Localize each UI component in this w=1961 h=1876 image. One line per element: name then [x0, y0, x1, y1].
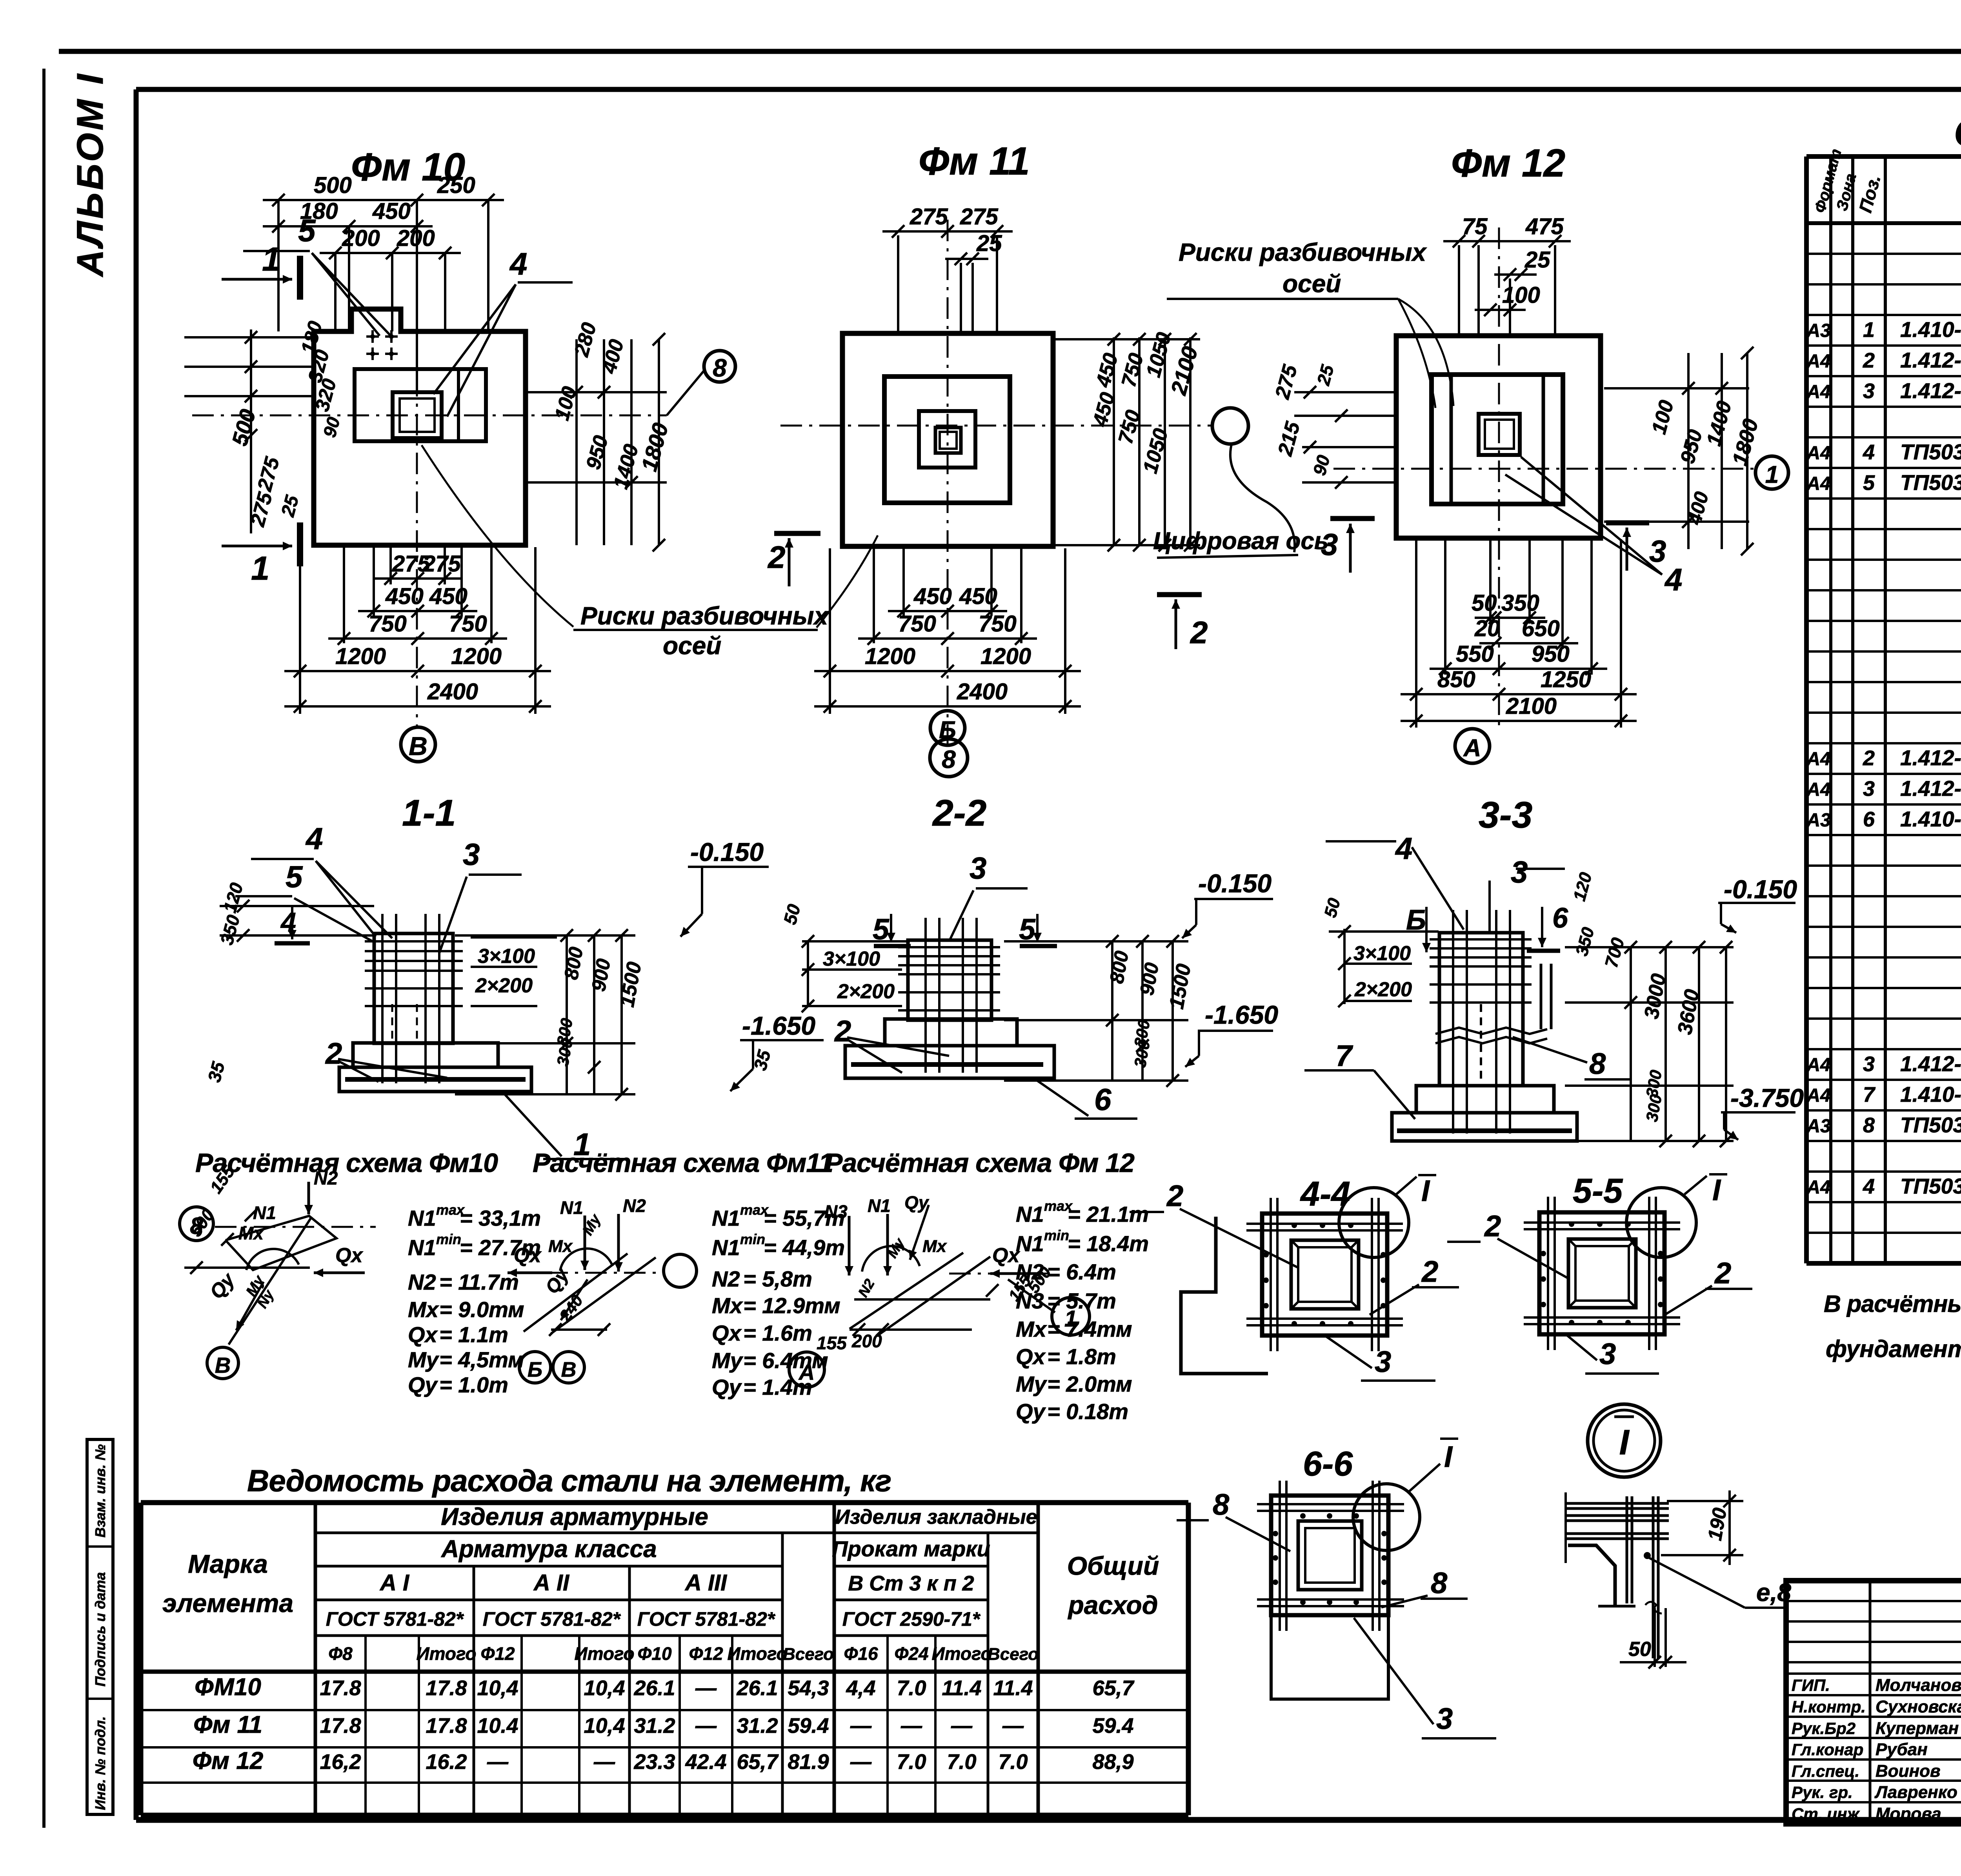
- svg-text:3: 3: [1511, 855, 1528, 889]
- svg-text:275: 275: [960, 204, 999, 229]
- svg-text:Спецификация: Спецификация: [1954, 111, 1961, 154]
- svg-text:3-3: 3-3: [1479, 794, 1532, 836]
- svg-text:2×200: 2×200: [1354, 978, 1412, 1001]
- svg-text:Qy: Qy: [712, 1375, 742, 1399]
- svg-text:1.412-1/77, Вып.3: 1.412-1/77, Вып.3: [1900, 746, 1961, 770]
- svg-text:= 6.4т: = 6.4т: [1047, 1259, 1116, 1284]
- svg-text:31.2: 31.2: [737, 1714, 778, 1738]
- svg-text:75: 75: [1462, 214, 1488, 239]
- svg-text:Гл.спец.: Гл.спец.: [1792, 1762, 1859, 1780]
- svg-text:1200: 1200: [980, 644, 1031, 669]
- svg-text:осей: осей: [663, 631, 721, 660]
- svg-text:4: 4: [305, 821, 323, 856]
- svg-text:А4: А4: [1806, 779, 1830, 800]
- svg-text:N1: N1: [408, 1206, 436, 1230]
- svg-text:е,8: е,8: [1756, 1578, 1791, 1607]
- svg-text:17.8: 17.8: [320, 1714, 361, 1738]
- svg-text:= 7.4тм: = 7.4тм: [1047, 1317, 1132, 1341]
- svg-text:Mx: Mx: [238, 1223, 264, 1243]
- svg-text:= 5.7т: = 5.7т: [1047, 1288, 1116, 1313]
- svg-text:Лавренко: Лавренко: [1874, 1783, 1957, 1802]
- svg-text:Изделия закладные: Изделия закладные: [835, 1506, 1037, 1528]
- svg-text:17.8: 17.8: [426, 1676, 467, 1700]
- svg-text:Итого: Итого: [728, 1643, 788, 1664]
- svg-text:А3: А3: [1806, 810, 1831, 831]
- svg-text:—: —: [487, 1750, 509, 1774]
- svg-text:2100: 2100: [1506, 693, 1557, 719]
- svg-text:4: 4: [1395, 831, 1412, 866]
- svg-text:-0.150: -0.150: [1198, 869, 1272, 898]
- svg-text:N3: N3: [824, 1201, 848, 1222]
- svg-text:Mх: Mх: [548, 1237, 573, 1256]
- svg-text:2: 2: [325, 1037, 342, 1070]
- svg-text:2: 2: [1714, 1257, 1731, 1290]
- svg-text:ГОСТ 5781-82*: ГОСТ 5781-82*: [483, 1608, 621, 1630]
- svg-text:Qу: Qу: [904, 1192, 930, 1213]
- svg-text:1-1: 1-1: [402, 792, 456, 834]
- svg-text:3: 3: [1375, 1345, 1391, 1379]
- svg-text:I: I: [1421, 1174, 1430, 1208]
- svg-text:Ст. инж: Ст. инж: [1792, 1805, 1860, 1823]
- svg-text:1.410-3 , Вып.1: 1.410-3 , Вып.1: [1900, 1082, 1961, 1106]
- svg-text:10.4: 10.4: [477, 1714, 518, 1738]
- svg-text:4: 4: [1863, 440, 1875, 464]
- svg-text:Инв. № подл.: Инв. № подл.: [92, 1716, 108, 1810]
- svg-text:= 2.0тм: = 2.0тм: [1047, 1372, 1132, 1396]
- svg-text:А: А: [1463, 735, 1481, 762]
- svg-text:7.0: 7.0: [897, 1676, 926, 1700]
- svg-text:16,2: 16,2: [320, 1750, 361, 1774]
- svg-text:3×100: 3×100: [1353, 942, 1411, 965]
- svg-text:Риски разбивочных: Риски разбивочных: [1179, 238, 1427, 266]
- svg-text:N1: N1: [1016, 1231, 1044, 1256]
- svg-text:N1: N1: [712, 1206, 740, 1230]
- svg-text:—: —: [850, 1714, 872, 1738]
- svg-text:Ф24: Ф24: [894, 1643, 928, 1664]
- svg-text:Mx: Mx: [408, 1297, 440, 1322]
- svg-text:Куперман: Куперман: [1876, 1719, 1959, 1738]
- svg-text:—: —: [951, 1714, 973, 1738]
- svg-text:2400: 2400: [427, 679, 478, 704]
- svg-text:Расчётная схема Фм10: Расчётная схема Фм10: [195, 1148, 498, 1178]
- svg-text:59.4: 59.4: [788, 1714, 829, 1738]
- svg-text:2: 2: [767, 540, 786, 575]
- svg-text:= 4,5тм: = 4,5тм: [439, 1347, 524, 1372]
- svg-text:155: 155: [817, 1333, 847, 1353]
- svg-text:42.4: 42.4: [685, 1750, 726, 1774]
- svg-text:= 1.6т: = 1.6т: [743, 1321, 812, 1345]
- svg-text:min: min: [1044, 1227, 1069, 1243]
- svg-text:Арматура класса: Арматура класса: [440, 1536, 657, 1563]
- svg-text:осей: осей: [1282, 269, 1341, 298]
- svg-text:5: 5: [286, 859, 303, 894]
- svg-text:8: 8: [1431, 1567, 1448, 1600]
- svg-text:1200: 1200: [335, 644, 386, 669]
- svg-text:= 5,8т: = 5,8т: [743, 1266, 812, 1291]
- svg-text:Цифровая ось: Цифровая ось: [1153, 528, 1329, 555]
- svg-text:10,4: 10,4: [584, 1714, 625, 1738]
- svg-text:1.412-1/77, Вып.3: 1.412-1/77, Вып.3: [1900, 776, 1961, 801]
- svg-text:= 1.0т: = 1.0т: [439, 1372, 508, 1397]
- svg-text:Ф12: Ф12: [689, 1643, 723, 1664]
- svg-text:550: 550: [1456, 641, 1494, 667]
- svg-text:N2: N2: [623, 1195, 646, 1216]
- svg-text:5: 5: [298, 213, 316, 248]
- svg-text:8: 8: [713, 354, 727, 382]
- svg-text:элемента: элемента: [162, 1589, 293, 1618]
- svg-text:1: 1: [262, 241, 280, 278]
- svg-text:6: 6: [1863, 808, 1875, 831]
- svg-text:= 1.1т: = 1.1т: [439, 1322, 508, 1347]
- svg-text:Mx: Mx: [1016, 1317, 1048, 1341]
- svg-text:3×100: 3×100: [823, 948, 880, 970]
- svg-text:8: 8: [1589, 1047, 1606, 1081]
- svg-text:Qx: Qx: [514, 1244, 542, 1267]
- svg-text:Рубан: Рубан: [1876, 1740, 1928, 1759]
- svg-text:5-5: 5-5: [1573, 1171, 1623, 1210]
- svg-text:Итого: Итого: [932, 1643, 992, 1664]
- svg-text:А3: А3: [1806, 320, 1831, 341]
- svg-text:5: 5: [1863, 471, 1875, 495]
- svg-text:59.4: 59.4: [1092, 1714, 1133, 1738]
- svg-text:В расчётных схемах даны: В расчётных схемах даны нормативные нагр…: [1824, 1290, 1961, 1317]
- svg-text:My: My: [1016, 1372, 1048, 1396]
- svg-text:17.8: 17.8: [426, 1714, 467, 1738]
- svg-text:= 1.8т: = 1.8т: [1047, 1344, 1116, 1369]
- svg-text:4: 4: [1863, 1175, 1875, 1198]
- svg-text:65,7: 65,7: [1092, 1676, 1135, 1700]
- svg-text:2×200: 2×200: [475, 974, 533, 997]
- svg-text:N2: N2: [314, 1168, 338, 1189]
- svg-text:—: —: [1002, 1714, 1024, 1738]
- svg-text:фундамента на отм. - 0.150.: фундамента на отм. - 0.150.: [1826, 1336, 1961, 1362]
- svg-text:В: В: [409, 731, 427, 761]
- svg-text:475: 475: [1525, 214, 1564, 239]
- svg-text:Расчётная схема Фм 12: Расчётная схема Фм 12: [825, 1148, 1135, 1178]
- svg-text:= 18.4т: = 18.4т: [1068, 1231, 1149, 1256]
- svg-text:650: 650: [1522, 616, 1560, 641]
- svg-text:Гл.конар: Гл.конар: [1792, 1740, 1863, 1759]
- svg-text:350: 350: [1501, 590, 1539, 616]
- svg-text:—: —: [900, 1714, 922, 1738]
- svg-text:-0.150: -0.150: [1724, 875, 1797, 904]
- svg-text:= 44,9т: = 44,9т: [764, 1235, 845, 1260]
- svg-text:Qx: Qx: [712, 1321, 742, 1345]
- svg-text:А III: А III: [684, 1570, 728, 1596]
- svg-text:3: 3: [1863, 1052, 1875, 1076]
- svg-text:Qy: Qy: [1016, 1399, 1046, 1424]
- svg-text:8: 8: [1863, 1114, 1875, 1137]
- svg-text:54,3: 54,3: [788, 1676, 829, 1700]
- svg-text:АЛЬБОМ I: АЛЬБОМ I: [69, 72, 111, 277]
- svg-text:расход: расход: [1067, 1590, 1158, 1619]
- svg-text:750: 750: [979, 611, 1017, 637]
- svg-text:Итого: Итого: [417, 1643, 477, 1664]
- svg-text:450: 450: [372, 198, 411, 224]
- svg-text:А4: А4: [1806, 443, 1830, 464]
- svg-text:3×100: 3×100: [478, 945, 535, 968]
- svg-text:1: 1: [1863, 318, 1875, 342]
- svg-text:—: —: [695, 1714, 717, 1738]
- svg-text:= 9.0тм: = 9.0тм: [439, 1297, 524, 1322]
- svg-text:26.1: 26.1: [736, 1676, 778, 1700]
- svg-text:2: 2: [1863, 746, 1875, 770]
- svg-text:8: 8: [942, 745, 956, 773]
- svg-text:1.410-3, Вып.1: 1.410-3, Вып.1: [1900, 807, 1961, 831]
- svg-text:4: 4: [1664, 562, 1683, 597]
- svg-text:Прокат марки: Прокат марки: [832, 1536, 990, 1561]
- svg-text:Qx: Qx: [408, 1322, 438, 1347]
- svg-text:N2: N2: [1016, 1259, 1044, 1284]
- svg-text:N1: N1: [253, 1203, 276, 1223]
- svg-text:50: 50: [1472, 590, 1497, 616]
- svg-text:3: 3: [1436, 1702, 1453, 1736]
- svg-text:В Ст 3 к п 2: В Ст 3 к п 2: [848, 1572, 974, 1595]
- svg-text:Н.контр.: Н.контр.: [1792, 1698, 1866, 1716]
- svg-text:I: I: [1712, 1174, 1721, 1207]
- svg-text:А4: А4: [1806, 1177, 1830, 1198]
- svg-text:275: 275: [910, 204, 948, 229]
- svg-text:7: 7: [1863, 1083, 1876, 1106]
- svg-text:Рук. гр.: Рук. гр.: [1792, 1783, 1853, 1801]
- svg-text:Сухновская: Сухновская: [1876, 1697, 1961, 1716]
- svg-text:6: 6: [1552, 903, 1568, 934]
- svg-text:50: 50: [1628, 1638, 1651, 1661]
- svg-text:88,9: 88,9: [1092, 1750, 1133, 1774]
- svg-text:ТП503-3-20.87 альбом IV: ТП503-3-20.87 альбом IV: [1900, 440, 1961, 464]
- svg-text:А4: А4: [1806, 473, 1830, 494]
- svg-text:N1: N1: [408, 1235, 436, 1260]
- svg-text:200: 200: [397, 226, 435, 251]
- svg-text:Ведомость расхода стали на эле: Ведомость расхода стали на элемент, кг: [247, 1463, 891, 1498]
- svg-text:А4: А4: [1806, 1055, 1830, 1075]
- svg-text:В: В: [561, 1358, 577, 1381]
- svg-text:—: —: [695, 1676, 717, 1700]
- svg-text:А II: А II: [533, 1570, 570, 1596]
- svg-text:—: —: [593, 1750, 615, 1774]
- svg-text:25: 25: [976, 231, 1002, 256]
- svg-text:= 0.18т: = 0.18т: [1047, 1399, 1128, 1424]
- svg-text:950: 950: [1532, 641, 1570, 667]
- svg-text:20: 20: [1474, 616, 1500, 641]
- svg-text:1: 1: [251, 550, 269, 587]
- svg-text:2×200: 2×200: [837, 980, 895, 1003]
- svg-text:ФМ10: ФМ10: [195, 1674, 261, 1701]
- svg-text:-3.750: -3.750: [1730, 1083, 1804, 1112]
- svg-text:1250: 1250: [1541, 667, 1591, 692]
- svg-text:1.412-1/77, Вып.3: 1.412-1/77, Вып.3: [1900, 348, 1961, 372]
- svg-text:ГОСТ 2590-71*: ГОСТ 2590-71*: [842, 1608, 981, 1630]
- svg-text:I: I: [1619, 1423, 1630, 1462]
- svg-text:23.3: 23.3: [633, 1750, 675, 1774]
- svg-text:7.0: 7.0: [947, 1750, 976, 1774]
- svg-text:1200: 1200: [865, 644, 915, 669]
- svg-text:Морова: Морова: [1876, 1804, 1941, 1823]
- svg-text:Рук.Бр2: Рук.Бр2: [1792, 1719, 1855, 1738]
- svg-text:N1: N1: [712, 1235, 740, 1260]
- svg-text:ТП503-3-20.87 альбом IV: ТП503-3-20.87 альбом IV: [1900, 1174, 1961, 1198]
- svg-text:-1.650: -1.650: [742, 1011, 815, 1040]
- svg-text:11.4: 11.4: [993, 1676, 1033, 1700]
- svg-text:1.412-1/77, Вып.3: 1.412-1/77, Вып.3: [1900, 1052, 1961, 1076]
- svg-text:ТП503-3-20.87 альбом IV: ТП503-3-20.87 альбом IV: [1900, 470, 1961, 495]
- svg-text:Qx: Qx: [1016, 1344, 1046, 1369]
- svg-text:Всего: Всего: [988, 1645, 1039, 1664]
- svg-text:3: 3: [463, 837, 480, 872]
- svg-text:= 12.9тм: = 12.9тм: [743, 1293, 840, 1318]
- svg-text:А4: А4: [1806, 351, 1830, 372]
- svg-text:Ф16: Ф16: [844, 1643, 878, 1664]
- svg-text:3: 3: [1863, 379, 1875, 403]
- svg-text:1.412-1/77, Вып3: 1.412-1/77, Вып3: [1900, 378, 1961, 403]
- svg-text:8: 8: [1213, 1488, 1230, 1521]
- svg-text:750: 750: [449, 611, 487, 637]
- svg-text:2: 2: [834, 1015, 851, 1048]
- svg-text:Б: Б: [528, 1358, 542, 1381]
- svg-text:3: 3: [1321, 527, 1338, 562]
- svg-text:4,4: 4,4: [846, 1676, 875, 1700]
- svg-text:2400: 2400: [957, 679, 1008, 704]
- svg-text:My: My: [712, 1348, 744, 1373]
- svg-text:min: min: [436, 1231, 461, 1247]
- svg-text:N2: N2: [712, 1266, 740, 1291]
- svg-text:1200: 1200: [451, 644, 502, 669]
- svg-text:Расчётная схема Фм11: Расчётная схема Фм11: [533, 1148, 833, 1178]
- svg-text:А: А: [798, 1360, 815, 1385]
- svg-text:А4: А4: [1806, 1085, 1830, 1106]
- svg-text:Молчанов: Молчанов: [1876, 1676, 1961, 1695]
- svg-text:= 33,1т: = 33,1т: [460, 1206, 541, 1230]
- svg-text:= 21.1т: = 21.1т: [1068, 1202, 1149, 1226]
- svg-text:А3: А3: [1806, 1116, 1831, 1137]
- svg-text:Фм 12: Фм 12: [1451, 141, 1565, 185]
- svg-text:Общий: Общий: [1067, 1551, 1159, 1580]
- svg-text:4: 4: [509, 246, 528, 281]
- svg-text:2-2: 2-2: [932, 792, 986, 834]
- svg-text:min: min: [740, 1231, 765, 1247]
- svg-text:7.0: 7.0: [897, 1750, 926, 1774]
- svg-text:Взам. инв. №: Взам. инв. №: [92, 1444, 108, 1538]
- svg-text:А4: А4: [1806, 749, 1830, 770]
- svg-text:В: В: [215, 1353, 231, 1377]
- svg-text:My: My: [408, 1347, 440, 1372]
- svg-text:2: 2: [1421, 1255, 1438, 1288]
- svg-text:Ф12: Ф12: [480, 1643, 515, 1664]
- svg-text:ГОСТ 5781-82*: ГОСТ 5781-82*: [637, 1608, 776, 1630]
- svg-text:2: 2: [1190, 615, 1208, 650]
- svg-text:2: 2: [1166, 1179, 1183, 1213]
- svg-text:Mх: Mх: [922, 1237, 947, 1256]
- svg-text:Qy: Qy: [408, 1372, 438, 1397]
- svg-text:Ф10: Ф10: [637, 1643, 671, 1664]
- svg-text:10,4: 10,4: [584, 1676, 625, 1700]
- svg-text:26.1: 26.1: [633, 1676, 675, 1700]
- svg-text:Фм 11: Фм 11: [919, 139, 1030, 183]
- svg-text:N1: N1: [560, 1197, 583, 1218]
- svg-text:10,4: 10,4: [477, 1676, 518, 1700]
- svg-text:1: 1: [1765, 461, 1779, 488]
- svg-text:6: 6: [1094, 1082, 1111, 1117]
- svg-text:6-6: 6-6: [1303, 1444, 1353, 1483]
- svg-text:ТП503-3-20.87 альбом IV: ТП503-3-20.87 альбом IV: [1900, 1113, 1961, 1137]
- svg-text:N1: N1: [1016, 1202, 1044, 1226]
- svg-text:25: 25: [1524, 247, 1550, 273]
- svg-text:1.410-3, Вып.1: 1.410-3, Вып.1: [1900, 317, 1961, 342]
- svg-text:200: 200: [851, 1331, 882, 1351]
- svg-text:Изделия арматурные: Изделия арматурные: [441, 1503, 708, 1530]
- svg-text:16.2: 16.2: [426, 1750, 467, 1774]
- svg-text:ГИП.: ГИП.: [1792, 1676, 1830, 1694]
- svg-text:17.8: 17.8: [320, 1676, 361, 1700]
- svg-text:2: 2: [1863, 349, 1875, 372]
- svg-text:N2: N2: [408, 1270, 436, 1294]
- svg-text:Итого: Итого: [575, 1643, 635, 1664]
- svg-text:31.2: 31.2: [634, 1714, 675, 1738]
- svg-text:Риски разбивочных: Риски разбивочных: [580, 602, 829, 630]
- svg-text:Ф8: Ф8: [328, 1643, 353, 1664]
- svg-text:= 6.4тм: = 6.4тм: [743, 1348, 828, 1373]
- svg-text:3: 3: [970, 851, 986, 885]
- svg-text:А I: А I: [379, 1570, 410, 1596]
- svg-text:7.0: 7.0: [998, 1750, 1028, 1774]
- svg-text:N3: N3: [1016, 1288, 1044, 1313]
- svg-text:65,7: 65,7: [737, 1750, 779, 1774]
- svg-text:450: 450: [385, 584, 424, 609]
- svg-text:Всего: Всего: [783, 1645, 834, 1664]
- svg-text:N1: N1: [868, 1195, 891, 1216]
- svg-text:-0.150: -0.150: [690, 837, 764, 866]
- svg-text:Mx: Mx: [712, 1293, 744, 1318]
- svg-text:ГОСТ 5781-82*: ГОСТ 5781-82*: [326, 1608, 464, 1630]
- svg-text:Фм 12: Фм 12: [193, 1747, 263, 1774]
- svg-text:3: 3: [1863, 777, 1875, 801]
- svg-text:100: 100: [1502, 282, 1540, 308]
- svg-text:450: 450: [913, 584, 952, 609]
- svg-text:81.9: 81.9: [788, 1750, 829, 1774]
- svg-text:850: 850: [1437, 667, 1475, 692]
- svg-text:Воинов: Воинов: [1876, 1761, 1941, 1781]
- svg-text:500: 500: [314, 173, 352, 198]
- svg-text:3: 3: [1649, 534, 1666, 568]
- svg-text:275: 275: [422, 551, 461, 577]
- svg-text:= 11.7т: = 11.7т: [439, 1270, 519, 1294]
- svg-text:200: 200: [342, 226, 380, 251]
- svg-text:250: 250: [437, 173, 475, 198]
- svg-text:-1.650: -1.650: [1205, 1000, 1278, 1029]
- svg-text:Подпись и дата: Подпись и дата: [92, 1572, 108, 1687]
- svg-text:3: 3: [1599, 1337, 1616, 1371]
- svg-text:Фм 11: Фм 11: [193, 1711, 262, 1738]
- svg-text:А4: А4: [1806, 382, 1830, 402]
- svg-text:—: —: [850, 1750, 872, 1774]
- svg-text:Qx: Qx: [335, 1244, 363, 1267]
- svg-text:Марка: Марка: [188, 1549, 268, 1578]
- svg-text:7: 7: [1335, 1039, 1353, 1073]
- svg-text:I: I: [1444, 1440, 1453, 1474]
- svg-text:11.4: 11.4: [942, 1676, 981, 1700]
